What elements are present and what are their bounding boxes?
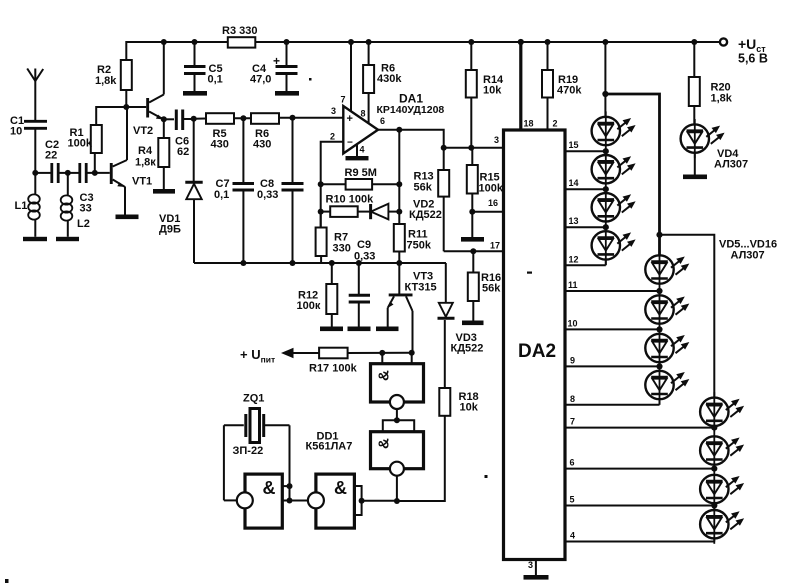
- diode VD1: [159, 119, 203, 263]
- node: R12 on bus: [329, 260, 335, 266]
- svg-text:10: 10: [10, 126, 22, 138]
- wire: DA2 pin 9: [565, 365, 660, 367]
- svg-text:22: 22: [45, 150, 57, 162]
- resistor R12 100k: [297, 263, 338, 327]
- svg-text:АЛ307: АЛ307: [714, 159, 748, 171]
- LED VD12: [645, 365, 689, 404]
- node: VD15/VD16: [711, 502, 717, 508]
- resistor R19 470k: [542, 42, 582, 130]
- gate DD1.4: [371, 432, 424, 501]
- resistor R2: [95, 60, 132, 107]
- resistor R4: [135, 119, 169, 189]
- svg-text:7: 7: [341, 95, 346, 105]
- ground (R16): [462, 321, 484, 326]
- wire: DA2 pin 14: [565, 188, 606, 190]
- LED VD7: [592, 188, 636, 227]
- node: R19 on rail: [545, 39, 551, 45]
- ground (C5): [183, 91, 207, 96]
- node: C9 on bus: [356, 260, 362, 266]
- node: LED branch: [602, 91, 608, 97]
- node: R9 right: [396, 181, 402, 187]
- svg-text:ZQ1: ZQ1: [243, 393, 264, 405]
- svg-text:56k: 56k: [482, 283, 501, 295]
- resistor R3: [222, 25, 257, 48]
- wire: DA2 pin 3 line: [444, 147, 504, 149]
- node: R10 left: [318, 209, 324, 215]
- svg-text:7: 7: [570, 417, 575, 427]
- label +Uпит: [240, 347, 319, 365]
- resistor R5: [206, 113, 251, 150]
- ground (C4): [275, 91, 299, 96]
- resistor R20 1,8k: [689, 42, 733, 125]
- LED VD8: [592, 226, 636, 265]
- resistor R6: [251, 113, 343, 150]
- svg-text:VT2: VT2: [133, 125, 153, 137]
- svg-text:−: −: [347, 138, 353, 149]
- capacitor C8: [257, 118, 304, 263]
- svg-text:АЛ307: АЛ307: [731, 250, 765, 262]
- inductor L2: [61, 173, 90, 237]
- svg-text:33: 33: [80, 203, 92, 215]
- wire: DA2 pin 4: [565, 541, 714, 543]
- svg-text:12: 12: [569, 254, 579, 264]
- node: C5 on rail: [192, 39, 198, 45]
- wire: DA2 pin 10: [565, 328, 660, 330]
- wire: VD8 cathode stub: [605, 260, 607, 266]
- node: R14/R15 junction: [468, 145, 474, 151]
- svg-text:15: 15: [569, 140, 579, 150]
- op-amp DA1: [330, 92, 444, 155]
- antenna WA1: [27, 69, 43, 122]
- resistor R17 100k: [309, 348, 413, 375]
- wire: gate3 out to gate4 inputs: [383, 420, 414, 431]
- transistor VT1: [110, 107, 152, 215]
- node: antenna/L1 junction: [32, 170, 38, 176]
- svg-text:L1: L1: [15, 200, 28, 212]
- node: gate1 input a: [287, 483, 293, 489]
- wire: +U power rail: [126, 42, 723, 60]
- svg-text:DA2: DA2: [518, 341, 556, 362]
- speck (scan artifact, near DA2): [527, 272, 532, 274]
- ground (R12): [320, 327, 343, 332]
- svg-text:R3 330: R3 330: [222, 25, 257, 37]
- LED VD4: [681, 119, 725, 158]
- node: R20 on rail: [691, 39, 697, 45]
- svg-text:16: 16: [488, 198, 498, 208]
- svg-text:56k: 56k: [414, 182, 433, 194]
- node: gate2 inputs: [359, 498, 365, 504]
- svg-text:100к: 100к: [297, 300, 321, 312]
- capacitor C9: [349, 239, 376, 327]
- node: gate3 input b / VT3 collector: [409, 350, 415, 356]
- LED VD6: [592, 150, 636, 189]
- svg-text:2: 2: [553, 119, 558, 129]
- transistor VT3: [388, 263, 437, 353]
- svg-text:10k: 10k: [483, 85, 502, 97]
- node: VD7/VD8: [603, 224, 609, 230]
- svg-text:4: 4: [570, 531, 575, 541]
- wire: DA2 pin 11: [565, 290, 660, 292]
- node: R6/C8: [290, 115, 296, 121]
- resistor R7 330: [316, 212, 351, 263]
- node: VT1 base / R1 junction: [92, 170, 98, 176]
- LED VD14: [700, 431, 744, 470]
- svg-text:+ Uпит: + Uпит: [240, 347, 275, 365]
- ground (DA2 pin 3 bottom): [524, 560, 549, 580]
- svg-text:17: 17: [490, 241, 500, 251]
- node: gate4 output / R18 bus: [394, 498, 400, 504]
- svg-text:КД522: КД522: [451, 343, 484, 355]
- node: VT2 collector on rail: [161, 39, 167, 45]
- svg-text:1,8к: 1,8к: [135, 157, 156, 169]
- pin labels DA2 right: [568, 140, 579, 541]
- label VD4: [714, 148, 748, 171]
- node: VD5/VD6: [603, 148, 609, 154]
- svg-text:100k: 100k: [479, 183, 504, 195]
- inductor L1: [15, 173, 40, 237]
- ground (pin 16 node): [461, 237, 484, 242]
- svg-text:&: &: [334, 478, 347, 498]
- label DD1: [306, 431, 353, 453]
- wire: input line: [35, 172, 51, 174]
- svg-text:0,33: 0,33: [354, 251, 375, 263]
- wire: DA2 pin 15: [565, 150, 606, 152]
- wire: DA2 pin 7: [565, 427, 714, 429]
- IC DA2: [488, 119, 565, 571]
- svg-text:R17 100k: R17 100k: [309, 363, 358, 375]
- capacitor C6: [164, 110, 194, 159]
- svg-text:470k: 470k: [557, 85, 582, 97]
- terminal +Uct: [720, 36, 768, 66]
- node: R11/VT3 on bus: [396, 260, 402, 266]
- node: gate3 input a: [379, 350, 385, 356]
- svg-text:10k: 10k: [460, 402, 479, 414]
- svg-text:330: 330: [333, 243, 351, 255]
- ground (L1): [23, 237, 47, 241]
- ground (L2): [56, 237, 79, 241]
- resistor R9 5M: [321, 167, 400, 190]
- node: R15/pin16/ground: [469, 209, 475, 215]
- svg-text:Д9Б: Д9Б: [159, 224, 181, 236]
- svg-text:R4: R4: [138, 145, 153, 157]
- wire: DA2 pin 13: [565, 226, 606, 228]
- node: C7 on bus: [240, 260, 246, 266]
- svg-text:47,0: 47,0: [250, 74, 271, 86]
- LED VD5: [592, 111, 636, 150]
- ground (VT3 emitter): [376, 327, 399, 332]
- svg-text:62: 62: [177, 146, 189, 158]
- resistor R8 430k: [363, 42, 402, 124]
- node: C2/C3/L2 junction: [65, 170, 71, 176]
- svg-text:&: &: [263, 478, 276, 498]
- svg-text:430k: 430k: [377, 73, 402, 85]
- resistor R13 56k: [414, 170, 450, 251]
- wire: DA2 pin 18 supply (thick): [519, 42, 522, 130]
- wire: output feedback column: [398, 130, 400, 224]
- svg-text:4: 4: [360, 145, 365, 155]
- ground (DA1 pin4): [346, 144, 369, 160]
- svg-text:0,1: 0,1: [214, 189, 229, 201]
- node: R1/R2/VT1 collector/VT2 base: [123, 104, 129, 110]
- node: VT2 emitter / R4 / C6: [161, 116, 167, 122]
- capacitor C2: [45, 139, 68, 183]
- svg-text:5,6 В: 5,6 В: [738, 52, 768, 66]
- node: R14 on rail: [468, 39, 474, 45]
- wire: DA1 output: [378, 130, 444, 170]
- ground (VD4): [683, 175, 707, 180]
- diode VD2: [371, 199, 442, 222]
- wire: branch to LED column 3: [660, 235, 715, 398]
- svg-text:9: 9: [570, 355, 575, 365]
- svg-text:+: +: [273, 54, 280, 68]
- svg-text:3: 3: [494, 135, 499, 145]
- wire: VD16 cathode stub: [713, 538, 715, 542]
- wire: DA1 pin7 to rail: [350, 42, 352, 112]
- resistor R14 10k: [466, 42, 504, 148]
- node: pin7 on rail: [348, 39, 354, 45]
- node: gate1 input b: [287, 498, 293, 504]
- speck (scan artifact, bottom-left): [5, 579, 9, 583]
- node: VD14/VD15: [711, 466, 717, 472]
- node: R9 left: [318, 181, 324, 187]
- svg-text:8: 8: [361, 109, 366, 119]
- wire: DA2 pin 6: [565, 468, 714, 470]
- LED VD11: [645, 328, 689, 367]
- svg-text:430: 430: [253, 139, 271, 151]
- node: VD9/VD10: [656, 288, 662, 294]
- svg-text:0,1: 0,1: [208, 74, 223, 86]
- capacitor C5: [184, 42, 223, 91]
- svg-text:R9 5M: R9 5M: [345, 167, 377, 179]
- speck (scan artifact, below R18): [485, 475, 488, 478]
- LED VD16: [700, 505, 744, 544]
- wire: LED supply from rail: [604, 42, 606, 117]
- node: VD13/VD14: [711, 425, 717, 431]
- wire: VD4 to ground: [694, 153, 696, 175]
- svg-text:2: 2: [330, 132, 335, 142]
- svg-text:К561ЛА7: К561ЛА7: [306, 441, 353, 453]
- resistor R1: [68, 107, 127, 173]
- wire: VD12 cathode stub: [659, 399, 661, 405]
- svg-text:430: 430: [211, 139, 229, 151]
- node: R5/R6/C7: [240, 115, 246, 121]
- node: pin18 on rail: [518, 39, 524, 45]
- gate DD1.3: [371, 353, 424, 421]
- svg-text:КД522: КД522: [409, 209, 442, 221]
- svg-text:3: 3: [528, 560, 533, 570]
- svg-text:14: 14: [569, 178, 579, 188]
- resistor R16 56k: [468, 251, 501, 320]
- resistor R18 10k: [439, 320, 478, 416]
- svg-text:+: +: [347, 113, 353, 125]
- svg-text:КР140УД1208: КР140УД1208: [377, 104, 445, 116]
- node: DA2 pin3 tap on R13 column: [441, 145, 447, 151]
- resistor R15 100k: [467, 148, 504, 237]
- svg-text:8: 8: [570, 394, 575, 404]
- svg-text:VT1: VT1: [132, 176, 152, 188]
- svg-text:6: 6: [570, 458, 575, 468]
- wire: gate1 inputs to gate2 output: [290, 500, 309, 502]
- svg-text:11: 11: [568, 280, 578, 290]
- wire: DA2 pin 8: [565, 404, 660, 406]
- svg-text:3: 3: [331, 106, 336, 116]
- wire: DA2 pin 16 line: [472, 211, 503, 213]
- svg-text:&: &: [376, 438, 393, 449]
- svg-text:КТ315: КТ315: [405, 282, 437, 294]
- gate DD1.2: [308, 474, 397, 528]
- node: pin17/R16: [470, 248, 476, 254]
- label VD5...VD16: [719, 239, 777, 262]
- wire: DA2 pin 17 line: [444, 250, 504, 252]
- svg-text:L2: L2: [77, 218, 90, 230]
- svg-text:18: 18: [524, 119, 534, 129]
- transistor VT2: [126, 42, 164, 137]
- node: VD10/VD11: [656, 326, 662, 332]
- node: C6 / R5 / VD1: [191, 116, 197, 122]
- svg-text:6: 6: [380, 116, 385, 126]
- LED VD13: [700, 392, 744, 431]
- node: C8 on bus: [290, 260, 296, 266]
- crystal ZQ1: [224, 393, 290, 458]
- wire: RF line R5/R6 to op-amp: [194, 118, 206, 120]
- ground (VT1 emitter): [116, 215, 139, 220]
- svg-text:5: 5: [570, 495, 575, 505]
- svg-text:&: &: [376, 370, 393, 381]
- capacitor C4: [250, 42, 298, 91]
- svg-text:ЗП-22: ЗП-22: [233, 445, 264, 457]
- node: VD2 / R11: [396, 209, 402, 215]
- svg-text:1,8k: 1,8k: [95, 75, 117, 87]
- wire: branch to LED columns 2,3 (thick): [605, 94, 659, 255]
- diode VD3: [438, 263, 484, 355]
- svg-text:1,8k: 1,8k: [711, 93, 733, 105]
- node: output / feedback column: [396, 127, 402, 133]
- wire: ground bus: [194, 262, 446, 264]
- ground (R4): [153, 189, 175, 194]
- node: LED feed on rail: [602, 39, 608, 45]
- capacitor C3: [68, 163, 110, 215]
- speck (scan artifact, near C4): [309, 78, 312, 81]
- wire: DA2 pin 5: [565, 505, 714, 507]
- svg-text:750k: 750k: [407, 240, 432, 252]
- node: VD6/VD7: [603, 186, 609, 192]
- capacitor C1: [10, 115, 47, 173]
- resistor R10 100k: [321, 194, 374, 217]
- wire: DA2 pin 12: [565, 264, 606, 266]
- node: R8 on rail: [366, 39, 372, 45]
- svg-text:13: 13: [569, 216, 579, 226]
- wire: DA1 pin2 / feedback node: [321, 142, 344, 228]
- svg-text:100k: 100k: [68, 138, 93, 150]
- node: gate3/gate4 link: [394, 417, 400, 423]
- svg-text:0,33: 0,33: [257, 189, 278, 201]
- svg-text:C9: C9: [357, 239, 371, 251]
- gate DD1.1: [224, 425, 290, 528]
- ground (C9): [348, 327, 371, 332]
- svg-text:R10 100k: R10 100k: [326, 194, 375, 206]
- node: C4 on rail: [284, 39, 290, 45]
- LED VD15: [700, 469, 744, 508]
- wire: gate4 output to R18: [397, 416, 445, 501]
- node: VD11/VD12: [656, 363, 662, 369]
- resistor R11 750k: [394, 224, 432, 263]
- svg-text:10: 10: [568, 318, 578, 328]
- node: branch to column 3: [656, 232, 662, 238]
- LED VD10: [645, 290, 689, 329]
- capacitor C7: [214, 118, 254, 263]
- LED VD9: [645, 250, 689, 289]
